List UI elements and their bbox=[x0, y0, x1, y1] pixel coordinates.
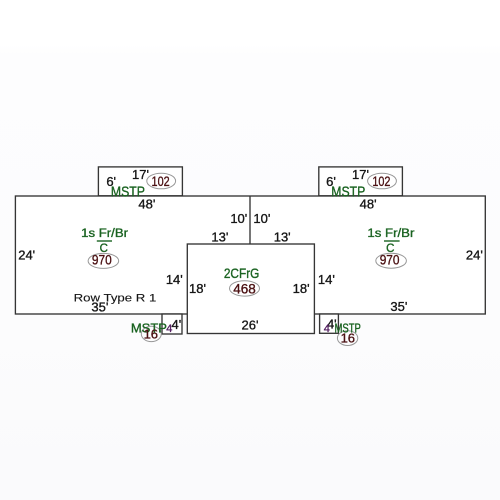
svg-text:4': 4' bbox=[172, 317, 182, 332]
svg-text:16: 16 bbox=[144, 326, 158, 341]
svg-text:4: 4 bbox=[324, 323, 330, 335]
svg-text:970: 970 bbox=[380, 251, 400, 267]
svg-text:17': 17' bbox=[132, 167, 149, 182]
svg-text:24': 24' bbox=[18, 248, 35, 263]
svg-text:1s Fr/Br: 1s Fr/Br bbox=[81, 228, 128, 240]
svg-text:35': 35' bbox=[390, 299, 407, 314]
svg-text:2CFrG: 2CFrG bbox=[224, 265, 260, 281]
svg-text:13': 13' bbox=[211, 229, 228, 244]
svg-text:18': 18' bbox=[189, 281, 206, 296]
svg-text:10': 10' bbox=[230, 211, 247, 226]
svg-text:102: 102 bbox=[152, 173, 170, 189]
svg-text:468: 468 bbox=[233, 280, 256, 296]
svg-text:16: 16 bbox=[341, 331, 355, 346]
svg-text:17': 17' bbox=[352, 167, 369, 182]
svg-text:14': 14' bbox=[166, 272, 183, 287]
svg-text:10': 10' bbox=[253, 211, 270, 226]
svg-text:14': 14' bbox=[318, 272, 335, 287]
svg-text:4: 4 bbox=[166, 323, 172, 335]
svg-text:MSTP: MSTP bbox=[331, 184, 365, 200]
svg-text:35': 35' bbox=[91, 299, 108, 314]
svg-text:26': 26' bbox=[242, 317, 259, 332]
svg-text:MSTP: MSTP bbox=[111, 184, 145, 200]
svg-text:18': 18' bbox=[293, 281, 310, 296]
svg-text:13': 13' bbox=[274, 229, 291, 244]
svg-text:102: 102 bbox=[372, 173, 390, 189]
svg-text:24': 24' bbox=[466, 247, 483, 262]
svg-text:1s Fr/Br: 1s Fr/Br bbox=[367, 228, 414, 240]
svg-text:970: 970 bbox=[92, 252, 112, 268]
svg-text:Row Type R 1: Row Type R 1 bbox=[74, 292, 157, 304]
